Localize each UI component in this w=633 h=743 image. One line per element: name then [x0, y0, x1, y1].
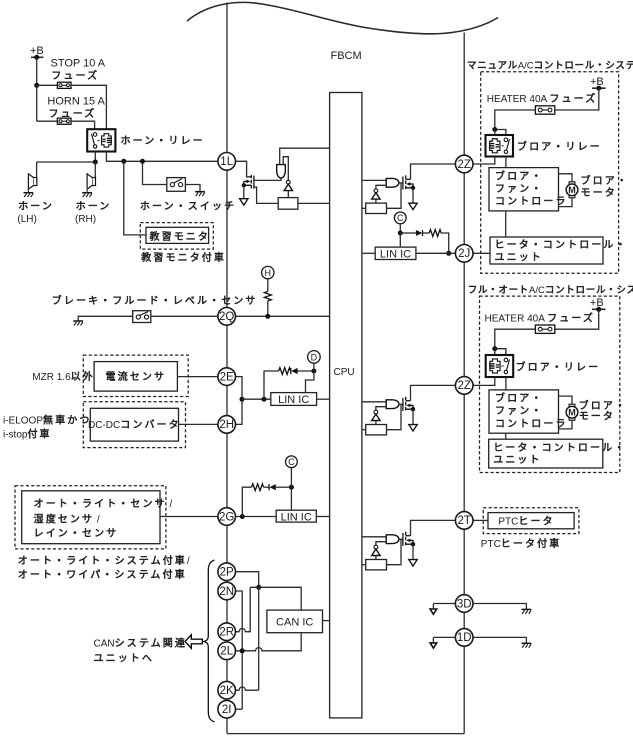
wire CPU to AND gate U8 [362, 536, 386, 538]
svg-text:HEATER 40A フューズ: HEATER 40A フューズ [487, 92, 598, 105]
blower motor labels [579, 399, 627, 422]
svg-text:ファン・: ファン・ [495, 184, 543, 195]
svg-text:2E: 2E [220, 371, 234, 383]
wire feed to coil [494, 130, 496, 141]
svg-text:コントローラ: コントローラ [495, 418, 568, 430]
wire controller to heater control unit [505, 433, 507, 439]
horn RH labels [75, 201, 111, 226]
wire +B down to fuse branches [36, 57, 38, 121]
wire R1 to Q1 source path [254, 187, 278, 203]
transistor Q3 (high-side MOSFET) [403, 397, 413, 411]
horn relay switch contact [92, 133, 100, 149]
blower fan controller box (manual A/C) [489, 168, 559, 211]
transistor Q2 (high-side MOSFET) [403, 175, 413, 189]
training monitor box [146, 227, 209, 243]
svg-text:PTCヒータ付車: PTCヒータ付車 [481, 537, 562, 550]
svg-text:2G: 2G [219, 511, 234, 523]
FBCM left edge wire [226, 3, 228, 734]
wire brake sensor to 2Q [151, 315, 218, 317]
wire AND output to Q2 gate [399, 182, 403, 184]
training monitor dashed enclosure [140, 223, 213, 250]
pin 1L [218, 153, 236, 171]
wire Q2 to output arrow [412, 188, 414, 203]
svg-text:ホーン・リレー: ホーン・リレー [121, 135, 205, 147]
wire relay coil to pin [473, 377, 495, 385]
svg-text:HORN 15 A: HORN 15 A [47, 96, 105, 108]
wire horn feed bus [37, 161, 96, 163]
wire +B down to fuse [555, 309, 599, 329]
svg-text:1L: 1L [220, 156, 233, 168]
node 2E/2H join [240, 397, 245, 402]
CPU U1 box [330, 93, 362, 718]
horn relay K1 box [87, 129, 115, 151]
heater control unit labels [495, 239, 628, 264]
power +B (full-auto A/C) [590, 297, 606, 312]
open arrow ground (1D left) [430, 643, 437, 648]
wire AND input A from CPU [280, 148, 330, 164]
wire 2G to LIN IC U4 [235, 516, 276, 518]
wire fuse F2 to horn relay switch [71, 121, 95, 129]
wire Q4 drain to pin [411, 520, 456, 535]
svg-text:ユニット: ユニット [495, 253, 543, 264]
AND gate U7 [386, 400, 399, 409]
svg-text:2Z: 2Z [457, 159, 470, 171]
pin 2L [218, 642, 236, 660]
svg-text:3D: 3D [457, 598, 472, 610]
transistor Q1 (high-side MOSFET for 1L) [244, 175, 254, 189]
AND gate U8 [386, 535, 399, 544]
pin 2H [218, 416, 236, 434]
wire 2E to LIN node [235, 377, 242, 400]
heater control unit box (manual A/C) [490, 237, 603, 264]
CAN connector brace [204, 560, 215, 722]
wire current sensor to 2E [177, 376, 218, 378]
node C branch [289, 485, 294, 490]
svg-text:FBCM: FBCM [331, 50, 362, 62]
wire relay switch to controller [505, 377, 507, 390]
current sensor dashed enclosure [83, 355, 188, 396]
svg-text:モータ: モータ [581, 187, 617, 199]
node: training monitor tap [121, 159, 126, 164]
DC-DC converter dashed enclosure [83, 402, 185, 448]
wire Q3 drain to pin [411, 385, 456, 400]
wire amp to AND input B [376, 185, 386, 189]
pin 2G [218, 508, 236, 526]
pin 2P [218, 563, 236, 581]
horn LH speaker [24, 174, 37, 197]
svg-text:オート・ライト・センサ /: オート・ライト・センサ / [34, 498, 173, 510]
svg-text:教習モニタ: 教習モニタ [150, 230, 211, 243]
wire Q1 to output arrow [243, 185, 245, 198]
wire to horn RH [94, 162, 96, 178]
diode D3 (anode left) [400, 230, 429, 236]
AND gate U6 [386, 178, 399, 187]
wire Q4 to output arrow [412, 544, 414, 559]
horn RH speaker [82, 174, 95, 197]
fuse HEATER 40A (manual A/C) [535, 106, 554, 114]
svg-text:2T: 2T [457, 515, 470, 527]
wire R8 to 2J net [441, 233, 449, 253]
ground (horn switch) [195, 192, 205, 196]
node Q4 source [411, 542, 415, 546]
wire LIN IC U3 to CPU [317, 398, 330, 400]
svg-text:CPU: CPU [334, 367, 355, 378]
fuse F2 (HORN 15A) [57, 118, 71, 124]
resistor R8 (zigzag) [429, 230, 441, 237]
pin 2Q [218, 308, 236, 326]
svg-text:LIN IC: LIN IC [380, 249, 411, 261]
svg-text:フューズ: フューズ [49, 107, 97, 120]
svg-text:i-ELOOP無車かつ: i-ELOOP無車かつ [3, 414, 91, 427]
wire C node to LIN IC U9 [399, 233, 401, 247]
CAN system labels [94, 637, 187, 665]
wire 2H to LIN node [235, 399, 242, 424]
resistor R2 (pull-up zigzag) [264, 291, 271, 301]
wire H to resistor R2 [267, 279, 269, 292]
wire node to LIN IC top [306, 371, 314, 393]
wire CAN-H bus to CAN IC top [250, 587, 301, 610]
net label circle C (2J block) [394, 212, 406, 224]
wire C label down [399, 224, 401, 233]
power +B (top left) [30, 45, 44, 60]
wire 1D right to ground [473, 637, 527, 643]
node Q2 source [411, 186, 415, 190]
wire CPU to LIN IC U9 [362, 252, 375, 254]
fuse HEATER 40A (full-auto A/C) [535, 325, 554, 333]
node CAN-H junction [256, 585, 261, 590]
svg-text:オート・ライト・システム付車/: オート・ライト・システム付車/ [18, 554, 190, 567]
net label circle H [262, 266, 274, 278]
pin 2E [218, 368, 236, 386]
svg-text:1D: 1D [457, 632, 472, 644]
wire C label down [290, 468, 292, 488]
brake sensor switch contacts [136, 312, 148, 320]
wire node to LIN IC U4 [290, 487, 292, 510]
wire Q2 drain to pin [411, 164, 456, 179]
wire LIN IC U9 to 2J [416, 252, 456, 254]
svg-text:ブロア・: ブロア・ [581, 174, 629, 187]
wire R1 to CPU [298, 202, 330, 204]
wire DC-DC to 2H [179, 423, 218, 425]
node 2J junction [446, 251, 451, 256]
svg-text:ホーン: ホーン [18, 201, 54, 213]
svg-text:D: D [311, 352, 318, 362]
blower relay switch contact [501, 358, 509, 374]
pin 2K [218, 681, 236, 699]
wire to training monitor [124, 161, 146, 235]
node 2G branch [240, 514, 245, 519]
svg-text:2Z: 2Z [457, 380, 470, 392]
svg-text:教習モニタ付車: 教習モニタ付車 [141, 251, 226, 264]
node Q1 source [242, 183, 246, 187]
wire 2N to CAN-L bus [235, 591, 242, 709]
svg-text:2P: 2P [220, 567, 234, 579]
svg-text:LIN IC: LIN IC [278, 394, 309, 406]
blower relay box (full-auto A/C) [486, 355, 514, 377]
svg-text:ホーン: ホーン [76, 201, 112, 213]
node: horn switch tap [140, 159, 145, 164]
DC-DC converter box [90, 408, 178, 441]
svg-text:ブロア・リレー: ブロア・リレー [516, 360, 601, 373]
svg-text:PTCヒータ: PTCヒータ [498, 516, 554, 528]
pin 2R [218, 623, 236, 641]
svg-text:HEATER 40A フューズ: HEATER 40A フューズ [485, 311, 596, 324]
wire R6 feedback to gate node [387, 404, 402, 429]
svg-text:ブロア・: ブロア・ [495, 169, 543, 182]
pin 2J [455, 245, 473, 263]
wire amp to sense resistor [287, 191, 289, 198]
wire 2L to CAN-L and CAN IC bottom (hop over CAN-H riser) [235, 633, 301, 651]
svg-text:フル・オートA/Cコントロール・システム: フル・オートA/Cコントロール・システム [468, 285, 633, 296]
sense resistor R7 box [366, 560, 387, 570]
node Q3 source [411, 407, 415, 411]
svg-text:DC-DCコンバータ: DC-DCコンバータ [88, 419, 181, 431]
auto light sensor box [22, 491, 160, 544]
blower relay coil [489, 359, 500, 373]
wire 1L to driver Q1 drain [235, 161, 251, 177]
horn relay coil [102, 134, 112, 147]
wire CPU to AND gate U7 [362, 401, 386, 403]
svg-text:H: H [265, 268, 272, 278]
blower relay box (manual A/C) [486, 135, 514, 157]
open arrow (load output) below Q3 [409, 425, 417, 431]
wire ground to brake sensor [78, 316, 133, 321]
wire branch riser to R4 [242, 487, 251, 516]
auto light sensor dashed enclosure [15, 486, 166, 549]
svg-text:ユニット: ユニット [493, 455, 541, 466]
node R2 junction [265, 314, 270, 319]
node C junction [398, 231, 403, 236]
power +B (manual A/C) [590, 76, 606, 91]
LIN IC U3 box [271, 393, 317, 406]
pin 2T [455, 512, 473, 530]
wire AND output to Q4 gate [399, 538, 403, 540]
wire R2 to 2Q net [267, 301, 269, 316]
current sensor box [94, 362, 177, 392]
wire D label to node [313, 363, 315, 371]
wire CPU to R7 [362, 564, 366, 566]
wire fuse F1 to horn relay coil [71, 85, 107, 129]
diode D2 (cathode left) [264, 484, 292, 490]
LIN IC U9 box [375, 247, 416, 259]
i-ELOOP labels [3, 414, 91, 441]
svg-text:CANシステム関連: CANシステム関連 [94, 637, 187, 650]
ground (brake sensor) [73, 321, 83, 325]
horn switch SW1 box [167, 178, 186, 192]
pin 3D [455, 595, 473, 613]
svg-text:レイン・センサ: レイン・センサ [34, 527, 119, 539]
wire controller to motor [559, 174, 573, 207]
wire fuse to relay feeds [495, 110, 536, 140]
wire 2K to CAN-H (hop over 2N line) [236, 687, 259, 690]
wire 2R to CAN-H (hop over 2N line) [235, 587, 250, 631]
svg-text:ホーン・スイッチ: ホーン・スイッチ [140, 201, 236, 213]
brake fluid level sensor switch box [133, 311, 151, 323]
svg-text:+B: +B [590, 297, 604, 309]
wire Q3 to output arrow [412, 409, 414, 424]
wire node to LIN IC U3 [242, 398, 271, 400]
node CAN-L junction at 2L [240, 648, 245, 653]
blower motor M (manual A/C) [566, 182, 578, 198]
wire controller to heater control unit [505, 211, 507, 237]
svg-text:2J: 2J [458, 248, 470, 260]
wire controller to motor [559, 396, 573, 429]
net label circle C (2G block) [286, 456, 298, 468]
sense resistor R5 box [366, 203, 387, 213]
wire 3D right to ground [473, 604, 527, 610]
wire CPU to AND gate U6 [362, 179, 386, 181]
open arrow (load output) below Q2 [409, 203, 417, 209]
pin 2I [218, 700, 236, 718]
sense amplifier (buffer with bubble) for Q1 [284, 180, 292, 190]
auto light system captions [18, 554, 190, 581]
blower fan controller labels [495, 392, 568, 430]
manual A/C system dashed enclosure [481, 72, 619, 274]
open arrow (load output) below Q1 [240, 199, 248, 205]
transistor Q4 (high-side MOSFET) [403, 532, 413, 546]
wire 2T to PTC heater [473, 519, 488, 521]
wire amp to sense resistor R7 [375, 556, 377, 560]
CAN system arrow [185, 635, 202, 648]
wire amp to AND input B [376, 407, 386, 411]
fuse F1 STOP 10 A label [51, 58, 106, 83]
wire CPU to R5 [362, 207, 366, 209]
svg-text:STOP 10 A: STOP 10 A [51, 58, 106, 70]
pin 2Z [455, 155, 473, 173]
wire amp to sense resistor R5 [375, 199, 377, 203]
svg-text:C: C [288, 457, 295, 467]
svg-text:ユニットへ: ユニットへ [94, 654, 155, 665]
pin 1D [455, 629, 473, 647]
svg-text:2I: 2I [222, 704, 232, 716]
pin 2N [218, 582, 236, 600]
ground (3D right) [522, 609, 532, 613]
svg-text:ブロア・: ブロア・ [495, 392, 543, 405]
CAN IC U5 box [267, 610, 323, 633]
svg-text:ブロア・: ブロア・ [579, 399, 627, 412]
wire CPU to R6 [362, 429, 366, 431]
wire to horn switch [143, 161, 167, 184]
svg-text:CAN IC: CAN IC [276, 616, 313, 628]
svg-text:(LH): (LH) [17, 214, 36, 225]
svg-text:モータ: モータ [579, 411, 615, 423]
blower fan controller box (full-auto A/C) [489, 390, 559, 433]
wire Q1 gate to AND gate output [254, 178, 281, 180]
svg-text:+B: +B [590, 76, 604, 88]
svg-text:湿度センサ /: 湿度センサ / [34, 512, 100, 525]
net label circle D [308, 351, 321, 364]
node relay feed junction [492, 346, 497, 351]
sense amplifier for Q4 [372, 545, 380, 555]
sense resistor R1 box [278, 198, 298, 210]
node: STOP fuse branch junction [34, 83, 39, 88]
resistor R4 (zigzag) [252, 484, 264, 491]
wire 2P to CAN-H bus [235, 572, 258, 588]
diode D1 (cathode left) [291, 368, 314, 374]
svg-text:2H: 2H [219, 419, 234, 431]
svg-text:フューズ: フューズ [51, 69, 99, 82]
wire feed to coil [494, 349, 496, 360]
wire amp to AND input B [376, 542, 386, 546]
svg-text:ヒータ・コントロール・: ヒータ・コントロール・ [493, 442, 626, 454]
wire relay coil low side to 1L [106, 152, 217, 162]
svg-text:2K: 2K [220, 685, 234, 697]
svg-text:MZR 1.6以外: MZR 1.6以外 [32, 371, 95, 383]
sense amplifier for Q2 [372, 189, 380, 199]
wire AND input B from sense amp [283, 157, 288, 181]
wire 3D left to chassis arrow [433, 604, 455, 610]
full-auto A/C system dashed enclosure [480, 296, 620, 472]
PTC heater dashed enclosure [483, 508, 579, 534]
svg-text:ファン・: ファン・ [495, 406, 543, 417]
open arrow ground (3D left) [430, 609, 437, 614]
svg-text:2N: 2N [219, 586, 234, 598]
svg-text:ブロア・リレー: ブロア・リレー [517, 140, 602, 153]
sense resistor R6 box [366, 425, 387, 435]
wire relay coil to pin [473, 157, 495, 165]
wire +B down to fuse [555, 88, 599, 110]
node pull-up branch [262, 397, 267, 402]
svg-text:電流センサ: 電流センサ [106, 370, 167, 383]
horn switch contacts [170, 179, 182, 187]
wire fuse to relay feeds [495, 329, 536, 360]
pin 2Z [455, 377, 473, 395]
svg-text:(RH): (RH) [75, 214, 96, 225]
wire R5 feedback to gate node [387, 183, 402, 208]
auto light sensor labels [34, 498, 173, 540]
svg-text:i-stop付車: i-stop付車 [3, 428, 52, 441]
svg-text:2Q: 2Q [219, 311, 234, 323]
wire amp to sense resistor R6 [375, 421, 377, 425]
wire relay switch to controller [505, 157, 507, 168]
FBCM module outer boundary: torn-edge top curve [187, 2, 498, 33]
svg-text:2L: 2L [220, 646, 233, 658]
wire R7 feedback to gate node [387, 539, 402, 564]
svg-text:コントローラ: コントローラ [495, 196, 568, 208]
fuse F2 HORN 15 A label [47, 96, 105, 121]
wire LIN IC U4 to CPU [316, 516, 329, 518]
fuse F1 (STOP 10A) [57, 82, 71, 88]
FBCM bottom edge wire [227, 733, 464, 735]
wire horn switch to ground [185, 185, 200, 192]
blower fan controller labels [495, 169, 568, 207]
PTC heater box [488, 513, 574, 529]
wire relay switch output down [94, 152, 96, 163]
LIN IC U4 box [276, 510, 316, 522]
wire 2Q to CPU [235, 315, 329, 317]
svg-text:マニュアルA/Cコントロール・システム: マニュアルA/Cコントロール・システム [467, 61, 633, 72]
node D1 to D label [311, 369, 316, 374]
blower relay coil [489, 139, 500, 153]
FBCM right edge wire [463, 33, 465, 734]
wire 2J to heater control unit [473, 252, 490, 254]
resistor R3 (zigzag) [279, 368, 291, 375]
wire to horn LH [36, 162, 38, 178]
open arrow (load output) below Q4 [409, 560, 417, 566]
wire 1D left to chassis arrow [433, 637, 455, 643]
horn LH labels [17, 201, 54, 226]
node relay feed junction [492, 127, 497, 132]
wire CAN-H bus down to 2K [258, 587, 260, 690]
wire sensor box to 2G [160, 516, 218, 518]
wire AND output to Q3 gate [399, 403, 403, 405]
ground (1D right) [522, 643, 532, 647]
svg-text:C: C [397, 213, 404, 223]
svg-text:2R: 2R [219, 627, 234, 639]
blower motor M (full-auto A/C) [566, 404, 578, 420]
sense amplifier for Q3 [372, 410, 380, 420]
svg-text:オート・ワイパ・システム付車: オート・ワイパ・システム付車 [18, 568, 187, 581]
